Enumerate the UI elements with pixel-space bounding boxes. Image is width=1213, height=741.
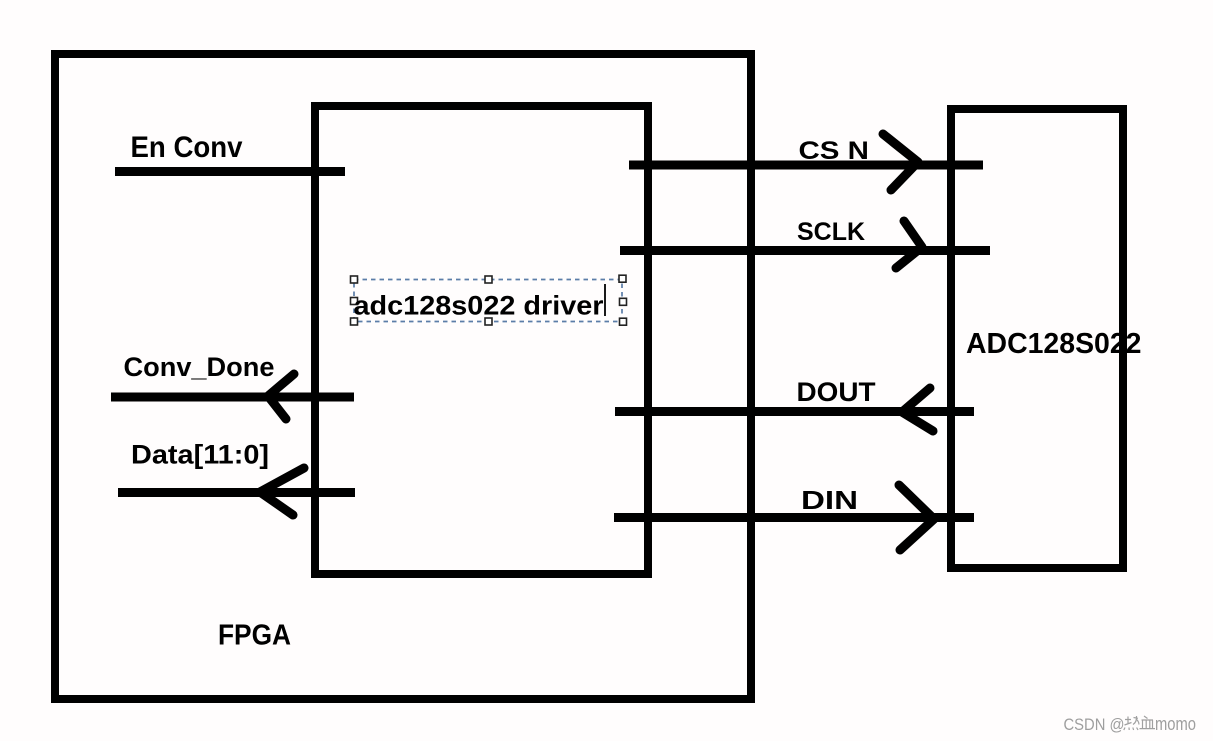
svg-text:DOUT: DOUT — [797, 377, 877, 407]
selection handle top-right — [619, 275, 626, 282]
watermark hanzi re (approximated strokes) — [1124, 716, 1139, 730]
selection handle mid-right — [620, 298, 627, 305]
svg-text:DIN: DIN — [801, 485, 858, 515]
wire CS_N — [629, 161, 983, 170]
svg-text:Data[11:0]: Data[11:0] — [131, 440, 269, 470]
arrowhead Data[11:0] (points left) — [260, 468, 304, 515]
svg-text:adc128s022 driver: adc128s022 driver — [354, 291, 604, 321]
arrowhead SCLK (points right) — [896, 221, 922, 268]
selection handle bottom-left — [351, 318, 358, 325]
selection handle bottom-middle — [485, 318, 492, 325]
ADC128S022 chip outline — [951, 109, 1123, 568]
svg-text:ADC128S022: ADC128S022 — [966, 328, 1142, 360]
svg-text:FPGA: FPGA — [218, 620, 291, 652]
arrowhead DOUT (points left) — [902, 388, 933, 431]
selection handle top-left — [351, 276, 358, 283]
wire SCLK — [620, 246, 990, 255]
selection handle mid-left — [351, 298, 358, 305]
wire DOUT — [615, 407, 974, 416]
wire En_Conv — [115, 167, 345, 176]
selection handle bottom-right — [620, 318, 627, 325]
arrowhead CS_N (points right) — [883, 134, 918, 190]
adc128s022 driver block outline — [315, 106, 648, 574]
arrowhead Conv_Done (points left) — [268, 374, 294, 419]
text caret after driver label — [604, 284, 606, 316]
svg-text:En Conv: En Conv — [131, 131, 243, 164]
wire Conv_Done — [111, 393, 354, 402]
FPGA block outline — [55, 54, 751, 699]
selection handle top-middle — [485, 276, 492, 283]
svg-text:Conv_Done: Conv_Done — [124, 352, 275, 382]
wire Data[11:0] — [118, 488, 355, 497]
watermark hanzi xue (approximated strokes) — [1140, 716, 1156, 729]
svg-text:SCLK: SCLK — [797, 218, 865, 246]
selection dashed box around driver label — [354, 280, 622, 322]
svg-text:momo: momo — [1155, 714, 1196, 734]
svg-text:CSDN @: CSDN @ — [1064, 715, 1125, 734]
wire DIN — [614, 513, 974, 522]
arrowhead DIN (points right) — [899, 485, 934, 550]
